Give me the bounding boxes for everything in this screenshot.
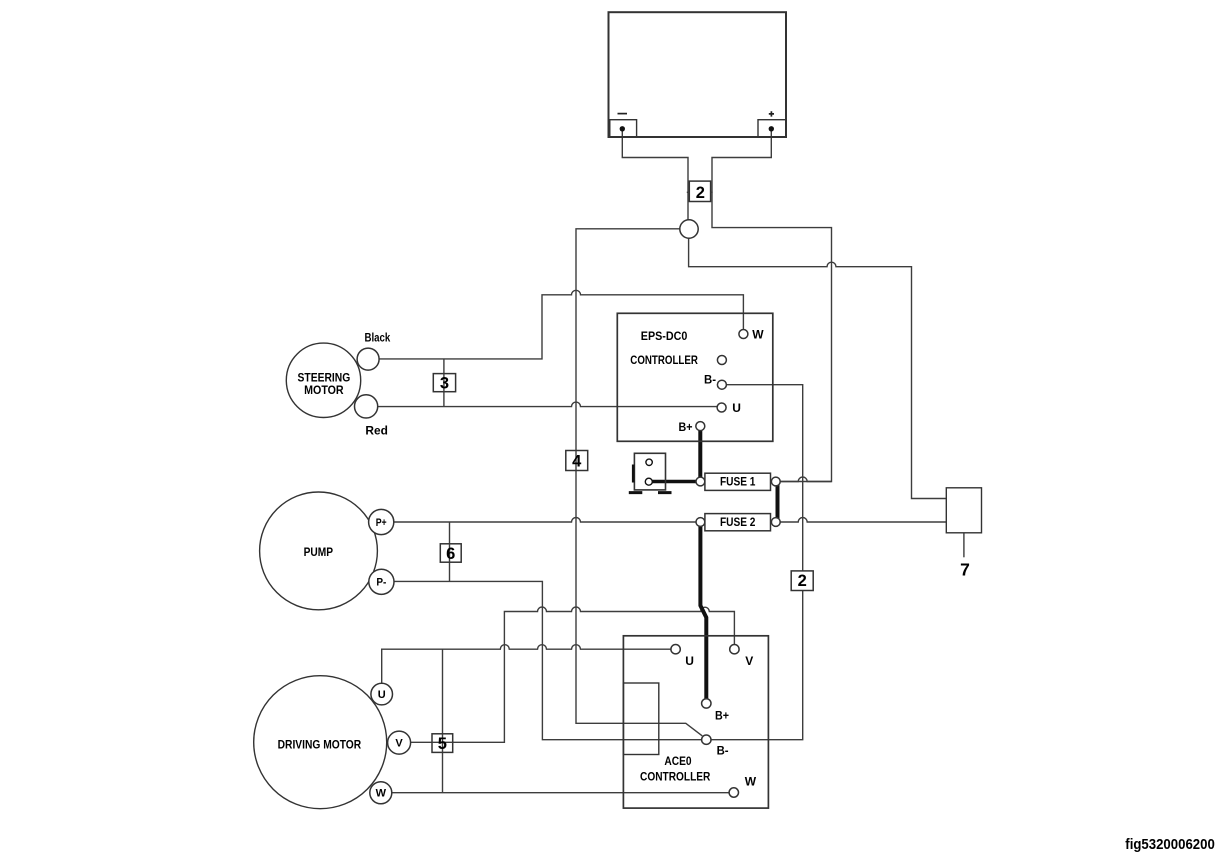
- svg-text:U: U: [378, 689, 386, 701]
- svg-text:B+: B+: [715, 709, 729, 723]
- svg-text:V: V: [395, 738, 403, 750]
- svg-text:P-: P-: [376, 577, 386, 589]
- svg-text:2: 2: [798, 572, 807, 590]
- svg-text:5: 5: [438, 735, 447, 753]
- svg-text:DRIVING MOTOR: DRIVING MOTOR: [278, 738, 362, 752]
- svg-text:4: 4: [572, 453, 582, 471]
- svg-text:6: 6: [446, 545, 455, 563]
- svg-text:U: U: [685, 654, 694, 668]
- svg-text:P+: P+: [376, 517, 387, 529]
- svg-text:U: U: [732, 401, 741, 415]
- svg-text:fig5320006200: fig5320006200: [1125, 836, 1215, 853]
- svg-text:7: 7: [960, 560, 970, 580]
- svg-text:CONTROLLER: CONTROLLER: [630, 353, 698, 367]
- svg-text:W: W: [752, 328, 764, 342]
- svg-text:B+: B+: [679, 420, 693, 434]
- svg-text:W: W: [376, 788, 387, 800]
- svg-text:V: V: [745, 654, 753, 668]
- svg-text:B-: B-: [704, 372, 716, 386]
- svg-text:FUSE 2: FUSE 2: [720, 515, 756, 529]
- svg-text:FUSE 1: FUSE 1: [720, 475, 756, 489]
- svg-text:CONTROLLER: CONTROLLER: [640, 769, 711, 783]
- svg-text:3: 3: [440, 375, 449, 393]
- svg-text:B-: B-: [717, 743, 729, 757]
- svg-text:PUMP: PUMP: [304, 545, 333, 559]
- svg-text:2: 2: [696, 184, 705, 202]
- svg-text:W: W: [745, 775, 757, 789]
- svg-text:EPS-DC0: EPS-DC0: [641, 329, 688, 343]
- svg-text:Black: Black: [365, 330, 391, 344]
- svg-text:ACE0: ACE0: [664, 754, 691, 768]
- svg-text:Red: Red: [365, 423, 388, 437]
- svg-text:MOTOR: MOTOR: [304, 383, 344, 397]
